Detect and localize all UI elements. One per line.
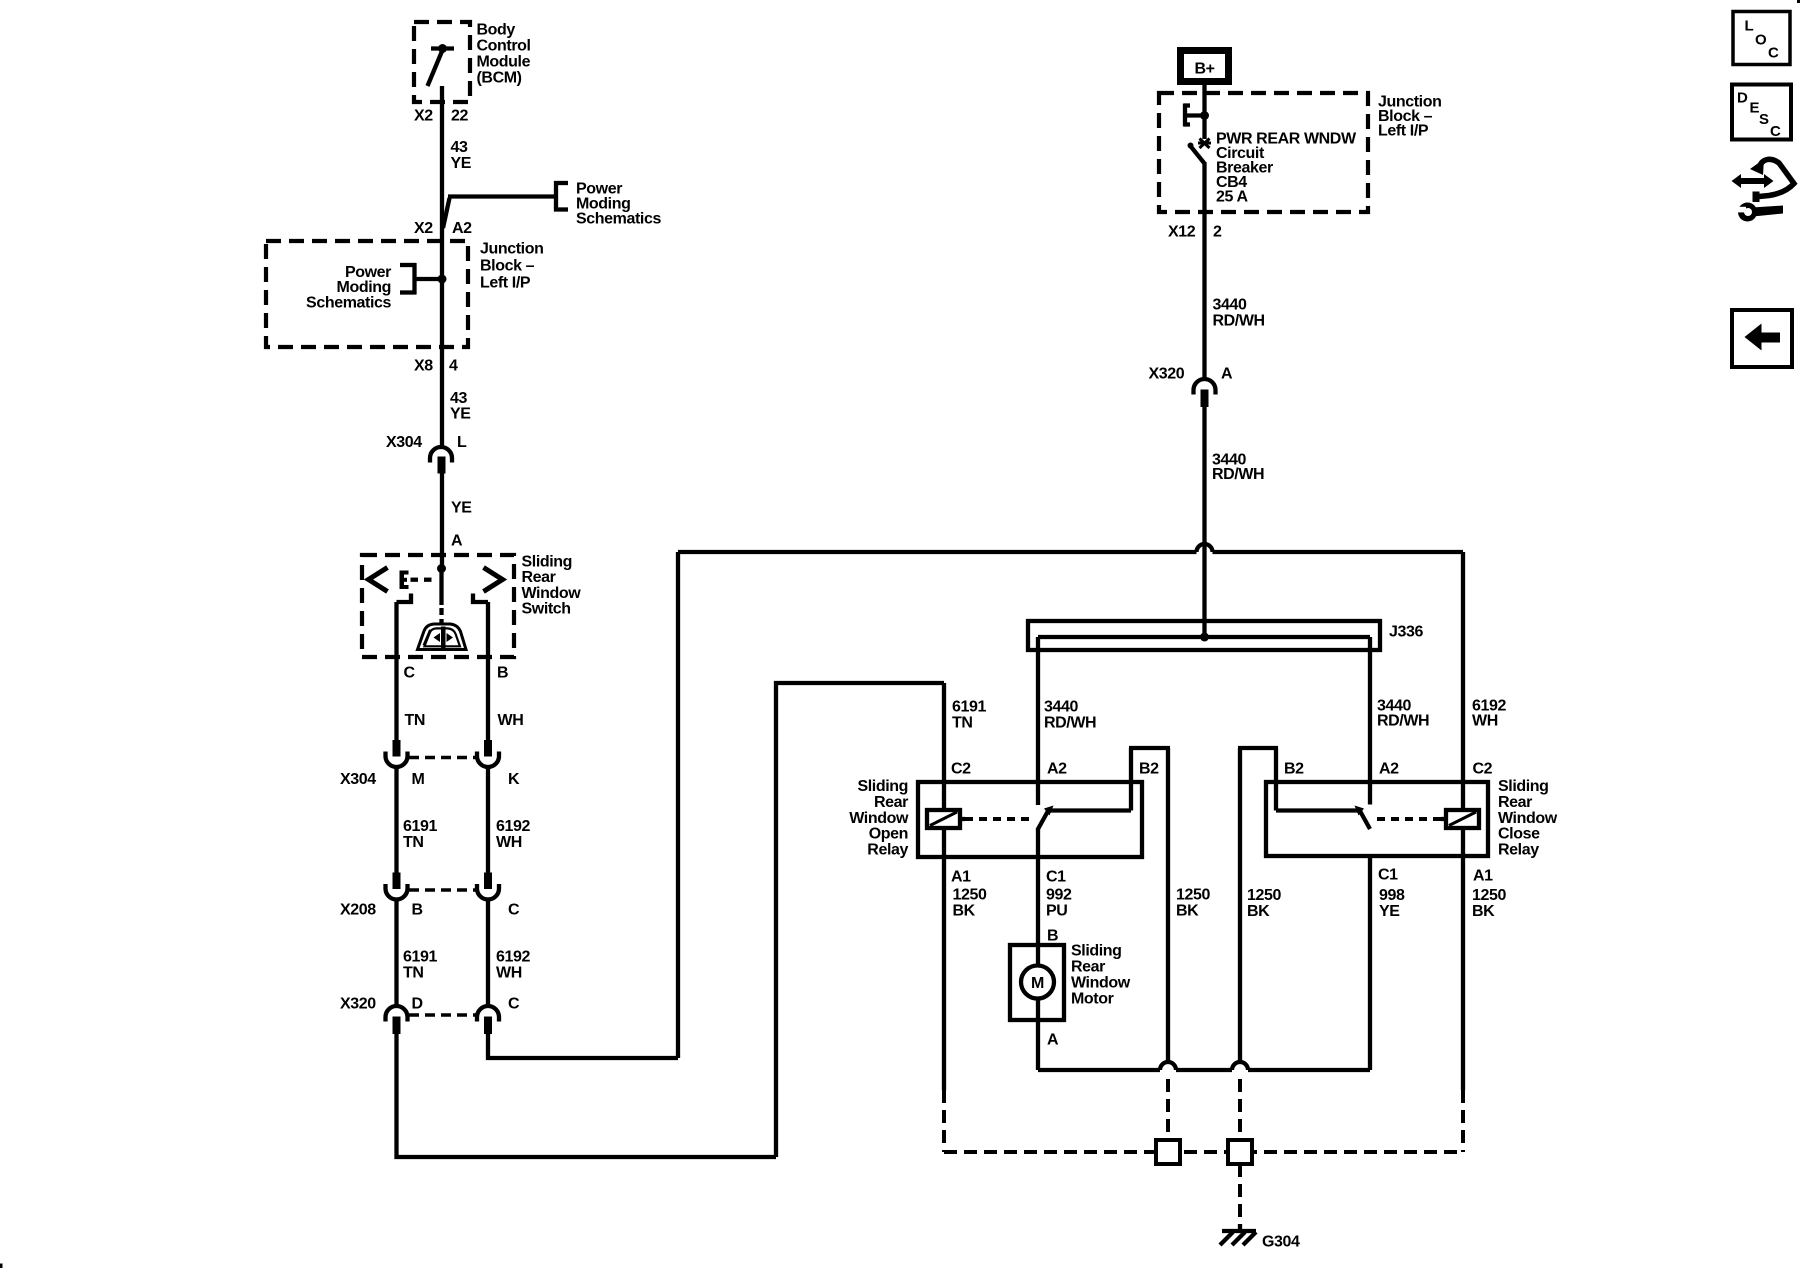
wire label 1250 BK (close relay B2) xyxy=(1247,887,1281,920)
label Power Moding Schematics (top) xyxy=(576,181,661,228)
svg-text:RD/WH: RD/WH xyxy=(1044,714,1096,731)
svg-text:S: S xyxy=(1759,111,1769,128)
dashed drop to ground G304 xyxy=(1238,1164,1242,1227)
svg-text:BK: BK xyxy=(953,903,976,920)
svg-text:K: K xyxy=(508,771,520,788)
splice pack J336 xyxy=(1028,621,1380,650)
svg-text:A2: A2 xyxy=(1047,761,1067,778)
svg-text:A1: A1 xyxy=(1473,868,1493,885)
close relay K2 box xyxy=(1266,782,1488,856)
svg-text:Window: Window xyxy=(849,810,909,827)
close relay A1 ground wire xyxy=(1461,855,1465,1090)
svg-text:J336: J336 xyxy=(1389,623,1423,640)
svg-text:WH: WH xyxy=(496,965,522,982)
open relay movable contact arm xyxy=(1038,806,1131,830)
wire label 6192 WH (relay feed) xyxy=(1472,697,1506,729)
svg-text:Body: Body xyxy=(477,22,516,39)
svg-text:BK: BK xyxy=(1247,903,1270,920)
label Power Moding Schematics (in left junction block) xyxy=(306,264,391,312)
wire label 998 YE xyxy=(1379,887,1405,920)
svg-text:Sliding: Sliding xyxy=(1498,778,1549,795)
svg-text:A1: A1 xyxy=(951,869,971,886)
bus stub in junction block xyxy=(1184,104,1205,127)
label Sliding Rear Window Switch xyxy=(522,554,582,618)
wire loop riser up to main run xyxy=(676,552,680,1058)
dashed ground drop close relay B2 xyxy=(1238,1079,1242,1140)
close relay pin labels bottom C1 A1 xyxy=(1378,867,1493,885)
junction node below B+ xyxy=(1200,111,1209,120)
wire label 3440 RD/WH (close relay) xyxy=(1377,697,1429,729)
icon back arrow button xyxy=(1732,310,1792,367)
svg-text:A: A xyxy=(1221,365,1233,382)
circuit breaker CB4 symbol xyxy=(1188,116,1212,164)
svg-text:D: D xyxy=(412,996,423,1013)
connector X304-L symbol xyxy=(430,447,452,474)
svg-text:WH: WH xyxy=(498,712,524,729)
wire J336 to open relay A2 xyxy=(1036,637,1040,805)
dashed ground drop close relay A1 xyxy=(1461,1090,1465,1152)
svg-text:Close: Close xyxy=(1498,826,1540,843)
svg-text:TN: TN xyxy=(405,712,426,729)
dashed ground bus run xyxy=(944,1150,1463,1154)
svg-text:B: B xyxy=(1047,927,1058,944)
wire label 6192 WH (second) xyxy=(496,949,530,982)
wire label 3440 RD/WH (open relay) xyxy=(1044,698,1096,731)
svg-text:E: E xyxy=(1750,100,1760,117)
svg-text:1250: 1250 xyxy=(1247,887,1281,904)
svg-text:1250: 1250 xyxy=(953,887,987,904)
svg-text:D: D xyxy=(1737,90,1748,107)
BCM module U1 dashed box xyxy=(414,22,470,102)
connector X8 pin 4 labels xyxy=(414,358,458,375)
wire label 43 YE xyxy=(451,139,472,172)
open relay coil-contact dashed link xyxy=(965,817,1031,821)
branch wire to Power Moding Schematics xyxy=(443,197,556,229)
switch right chevron contact xyxy=(484,568,503,592)
label Sliding Rear Window Close Relay K2 xyxy=(1498,778,1558,858)
svg-text:X304: X304 xyxy=(386,434,422,451)
wire label 43 YE (second) xyxy=(450,390,471,423)
svg-text:Switch: Switch xyxy=(522,601,571,618)
splice S2 xyxy=(1228,1140,1252,1164)
svg-text:M: M xyxy=(412,771,425,788)
svg-text:6191: 6191 xyxy=(403,949,437,966)
connector X320 pin A labels xyxy=(1149,365,1234,382)
wire 6191 TN X208-B to X320-D xyxy=(394,900,398,1006)
wire X320-D down and right to riser xyxy=(397,1034,777,1157)
svg-text:Block –: Block – xyxy=(480,258,535,275)
wire label 6191 TN (second) xyxy=(403,949,437,982)
svg-text:X320: X320 xyxy=(340,996,376,1013)
wire label 992 PU xyxy=(1046,887,1072,920)
close relay coil xyxy=(1441,810,1479,828)
switch pole B stub xyxy=(473,594,488,603)
splice S1 xyxy=(1156,1140,1180,1164)
svg-text:Window: Window xyxy=(522,585,582,602)
svg-text:YE: YE xyxy=(451,499,472,516)
svg-text:G304: G304 xyxy=(1262,1233,1300,1250)
svg-text:YE: YE xyxy=(451,155,472,172)
wire switch B to X304-K xyxy=(486,602,490,741)
label Sliding Rear Window Open Relay K1 xyxy=(849,778,909,858)
switch left chevron contact xyxy=(369,568,388,592)
connector X2 pin A2 labels xyxy=(414,220,472,237)
wire 6191 TN X304-M to X208-B xyxy=(394,768,398,874)
close relay coil-contact dashed link xyxy=(1377,817,1441,821)
svg-text:Left I/P: Left I/P xyxy=(1378,123,1429,140)
svg-text:PU: PU xyxy=(1046,903,1067,920)
wire X320-C down and right to loop riser xyxy=(488,1034,678,1058)
wire label 6191 TN (relay feed) xyxy=(952,698,986,731)
svg-text:YE: YE xyxy=(1379,903,1400,920)
connector X208 row labels xyxy=(340,902,520,919)
connector X304-K symbol xyxy=(477,740,499,767)
svg-text:C2: C2 xyxy=(1473,761,1493,778)
wire label 6192 WH xyxy=(496,818,530,851)
svg-text:B: B xyxy=(412,902,423,919)
svg-text:C: C xyxy=(404,665,416,682)
wire YE to switch pin A xyxy=(440,473,444,568)
svg-text:1250: 1250 xyxy=(1472,887,1506,904)
svg-text:Rear: Rear xyxy=(1498,794,1532,811)
svg-text:3440: 3440 xyxy=(1213,297,1247,314)
svg-text:Left I/P: Left I/P xyxy=(480,275,531,292)
icon LOC button xyxy=(1733,12,1790,65)
connector X208-C symbol xyxy=(477,873,499,900)
svg-text:6192: 6192 xyxy=(496,949,530,966)
svg-text:C: C xyxy=(1770,123,1781,140)
svg-text:6191: 6191 xyxy=(403,818,437,835)
BCM internal switch symbol xyxy=(428,44,455,86)
connector X12 pin 2 labels xyxy=(1168,223,1222,240)
svg-text:Motor: Motor xyxy=(1071,991,1114,1008)
svg-text:A2: A2 xyxy=(452,220,472,237)
wire 6192 WH X208-C to X320-C xyxy=(486,900,490,1006)
wire label 3440 RD/WH (second) xyxy=(1212,451,1264,483)
label Junction Block Left I/P (left) xyxy=(480,241,543,292)
close relay coil to A1 wire xyxy=(1461,828,1465,856)
svg-text:Sliding: Sliding xyxy=(857,778,908,795)
svg-text:6192: 6192 xyxy=(496,818,530,835)
svg-text:Schematics: Schematics xyxy=(306,295,391,312)
switch actuator dashes xyxy=(411,578,432,582)
open relay A1 ground wire xyxy=(942,857,946,1090)
svg-text:BK: BK xyxy=(1176,903,1199,920)
svg-text:C2: C2 xyxy=(951,761,971,778)
svg-text:Open: Open xyxy=(869,826,908,843)
connector X320-D symbol xyxy=(386,1006,408,1034)
svg-text:Relay: Relay xyxy=(867,841,908,858)
junction block left I/P dashed box (right) xyxy=(1159,93,1368,212)
wire main run down to close relay C2 xyxy=(1461,552,1465,810)
bus bracket inside junction block xyxy=(400,263,442,295)
wire close relay C1 down to motor run xyxy=(1368,856,1372,1070)
wire label 6191 TN xyxy=(403,818,437,851)
svg-text:X2: X2 xyxy=(414,220,433,237)
close relay movable contact arm xyxy=(1276,806,1370,830)
wire riser to open relay C2 run xyxy=(776,683,944,1157)
open relay coil xyxy=(927,810,965,828)
connector X304 M-K dashed link xyxy=(409,756,476,760)
svg-text:X320: X320 xyxy=(1149,365,1185,382)
svg-text:A: A xyxy=(451,533,463,550)
svg-text:Rear: Rear xyxy=(522,569,556,586)
junction block left I/P dashed box xyxy=(266,241,468,347)
wire open relay C1 to motor B xyxy=(1036,828,1040,946)
connector X208 B-C dashed link xyxy=(409,888,476,892)
close relay pin labels top B2 A2 C2 xyxy=(1284,761,1493,778)
wire X320-A down to J336 splice pack xyxy=(1202,407,1206,637)
wire B+ into junction block xyxy=(1202,84,1206,115)
svg-text:Control: Control xyxy=(477,38,531,55)
svg-text:43: 43 xyxy=(450,390,467,407)
svg-text:WH: WH xyxy=(496,834,522,851)
sliding rear window switch S1 dashed box xyxy=(362,555,514,657)
page corner mark top right xyxy=(1797,0,1800,3)
svg-text:B+: B+ xyxy=(1194,61,1214,78)
wire label 3440 RD/WH xyxy=(1213,297,1265,330)
open relay pin labels top C2 A2 B2 xyxy=(951,761,1159,778)
svg-text:C: C xyxy=(508,996,520,1013)
svg-text:22: 22 xyxy=(451,107,468,124)
svg-text:B2: B2 xyxy=(1139,761,1159,778)
close relay B2 riser and tab xyxy=(1238,748,1278,1064)
svg-text:3440: 3440 xyxy=(1044,698,1078,715)
connector X2 pin 22 labels xyxy=(414,107,468,124)
open relay coil to A1 wire xyxy=(942,828,946,858)
svg-text:C1: C1 xyxy=(1378,867,1398,884)
wire motor A down xyxy=(1036,1020,1040,1070)
label Sliding Rear Window Motor xyxy=(1071,943,1131,1008)
svg-text:B2: B2 xyxy=(1284,761,1304,778)
wire label 1250 BK (close relay A1) xyxy=(1472,887,1506,920)
svg-text:X2: X2 xyxy=(414,107,433,124)
svg-text:C: C xyxy=(1768,45,1779,62)
svg-text:Moding: Moding xyxy=(337,279,391,296)
svg-text:X12: X12 xyxy=(1168,223,1196,240)
page corner mark bottom left xyxy=(0,1264,3,1269)
svg-text:Rear: Rear xyxy=(1071,959,1105,976)
svg-text:992: 992 xyxy=(1046,887,1072,904)
svg-text:25 A: 25 A xyxy=(1216,188,1248,205)
wire from BCM X2-22 down xyxy=(440,86,444,447)
svg-text:L: L xyxy=(457,434,467,451)
connector X304 pin L labels xyxy=(386,434,467,451)
svg-text:43: 43 xyxy=(451,139,468,156)
svg-text:Sliding: Sliding xyxy=(522,554,573,571)
svg-text:1250: 1250 xyxy=(1176,887,1210,904)
svg-text:TN: TN xyxy=(403,965,424,982)
label PWR REAR WNDW Circuit Breaker CB4 25 A xyxy=(1216,130,1357,205)
wire open relay C2 coil feed xyxy=(942,683,946,810)
svg-text:X304: X304 xyxy=(340,771,376,788)
svg-text:Rear: Rear xyxy=(874,794,908,811)
svg-text:TN: TN xyxy=(403,834,424,851)
svg-text:M: M xyxy=(1031,975,1044,992)
wire label 1250 BK (open relay B2) xyxy=(1176,887,1210,920)
wire motor A run to close relay C1 with hops xyxy=(1038,1062,1370,1070)
svg-text:(BCM): (BCM) xyxy=(477,70,522,87)
svg-text:RD/WH: RD/WH xyxy=(1213,313,1265,330)
dashed ground drop open relay B2 xyxy=(1166,1079,1170,1140)
svg-text:O: O xyxy=(1755,32,1767,49)
svg-text:Relay: Relay xyxy=(1498,841,1539,858)
svg-text:YE: YE xyxy=(450,406,471,423)
svg-text:Window: Window xyxy=(1498,810,1558,827)
switch E marker xyxy=(400,571,409,590)
svg-text:TN: TN xyxy=(952,714,973,731)
svg-text:Schematics: Schematics xyxy=(576,211,661,228)
connector X304 row labels xyxy=(340,771,520,788)
switch input node A xyxy=(437,564,446,573)
wire breaker to X320-A xyxy=(1202,162,1206,379)
connector X320-C symbol xyxy=(477,1006,499,1034)
svg-text:A2: A2 xyxy=(1379,761,1399,778)
connector X320 row labels xyxy=(340,996,520,1013)
wire switch C to X304-M xyxy=(394,602,398,741)
svg-text:6191: 6191 xyxy=(952,698,986,715)
svg-text:BK: BK xyxy=(1472,903,1495,920)
connector X208-B symbol xyxy=(386,873,408,900)
wire 6192 WH X304-K to X208-C xyxy=(486,768,490,874)
BCM label xyxy=(477,22,531,87)
svg-text:C1: C1 xyxy=(1046,869,1066,886)
wire J336 to close relay A2 xyxy=(1368,637,1372,805)
dashed ground drop open relay A1 xyxy=(942,1090,946,1152)
label Junction Block Left I/P (right) xyxy=(1378,93,1441,139)
open relay pin labels bottom A1 C1 xyxy=(951,869,1066,886)
switch pole C stub xyxy=(397,594,412,603)
svg-text:2: 2 xyxy=(1213,223,1222,240)
svg-text:B: B xyxy=(497,665,508,682)
open relay K1 box xyxy=(918,782,1142,857)
svg-text:Junction: Junction xyxy=(480,241,543,258)
open relay B2 riser and tab xyxy=(1129,748,1170,1064)
connector X320 D-C dashed link xyxy=(409,1013,476,1017)
junction node on J336 bus xyxy=(1200,633,1209,642)
battery feed B+ terminal xyxy=(1181,51,1229,82)
svg-text:X208: X208 xyxy=(340,902,376,919)
main run to close relay C2 with hop over power feed xyxy=(678,544,1463,552)
svg-text:A: A xyxy=(1047,1031,1059,1048)
junction node on wire in junction block xyxy=(438,275,447,284)
svg-text:RD/WH: RD/WH xyxy=(1212,466,1264,483)
ground G304 symbol xyxy=(1220,1224,1256,1245)
svg-text:4: 4 xyxy=(449,358,458,375)
svg-text:L: L xyxy=(1745,18,1754,35)
switch common wire with actuator dashes xyxy=(439,569,443,626)
connector X320-A symbol xyxy=(1194,379,1216,407)
svg-text:C: C xyxy=(508,902,520,919)
svg-text:RD/WH: RD/WH xyxy=(1377,712,1429,729)
svg-text:Sliding: Sliding xyxy=(1071,943,1122,960)
connector X304-M symbol xyxy=(386,740,408,767)
svg-text:X8: X8 xyxy=(414,358,433,375)
svg-text:Window: Window xyxy=(1071,975,1131,992)
icon repair arrows and wrench xyxy=(1732,159,1795,222)
off-page bracket Power Moding Schematics (top) xyxy=(554,181,568,212)
icon DESC button xyxy=(1732,85,1791,141)
svg-text:WH: WH xyxy=(1472,712,1498,729)
svg-text:998: 998 xyxy=(1379,887,1405,904)
svg-text:Module: Module xyxy=(477,54,531,71)
sliding rear window motor M1 xyxy=(1010,945,1064,1020)
window icon inside switch xyxy=(418,624,467,650)
wire label 1250 BK (open relay A1) xyxy=(953,887,987,920)
